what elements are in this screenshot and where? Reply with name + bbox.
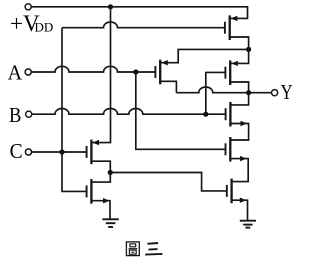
wire C vertical to Ninv gate	[62, 28, 87, 192]
nmos N3 (gate C-bar)	[227, 179, 246, 204]
node A junction	[133, 69, 138, 74]
label Y	[281, 80, 293, 104]
svg-text:C: C	[10, 139, 23, 163]
caption glyph 三	[145, 243, 162, 255]
+VDD terminal	[25, 4, 31, 10]
wire P2 source to node P	[160, 49, 248, 62]
pmos P1 (gate C, top right)	[225, 15, 237, 40]
input terminal A	[25, 69, 31, 75]
output terminal Y	[272, 90, 278, 96]
ground (right)	[240, 221, 256, 228]
wire A branch to N2 gate	[136, 72, 226, 149]
wire P1 drain to node P	[230, 37, 249, 49]
node B junction	[203, 112, 208, 117]
wire P3 drain to Y node	[230, 82, 248, 93]
node P junction dot	[246, 47, 251, 52]
label +VDD	[10, 11, 53, 36]
wire Cbar to N3 gate	[110, 173, 227, 191]
wire C to P1 gate with hop	[62, 22, 225, 28]
label A	[8, 60, 23, 84]
svg-text:A: A	[8, 60, 23, 84]
node Y junction dot	[246, 90, 251, 95]
nmos N2 (gate A)	[226, 137, 247, 162]
pmos P2 (gate A)	[155, 60, 167, 85]
wire P2 drain to Y line	[160, 81, 176, 92]
node VDD rail junction	[108, 4, 113, 9]
wire VDD drop to Pinv source	[91, 7, 110, 143]
svg-text:Y: Y	[281, 80, 293, 104]
input terminal B	[26, 111, 32, 117]
node C junction	[59, 149, 64, 154]
wire N1 source to N2 drain	[230, 124, 248, 141]
wire N2 source to N3 drain	[230, 159, 248, 182]
pmos P3 (gate B)	[225, 60, 237, 85]
wire C line to Pinv gate	[32, 151, 87, 153]
svg-text:B: B	[9, 103, 21, 127]
input terminal C	[25, 149, 31, 155]
wire Y line with hop	[176, 87, 271, 93]
ground (left)	[102, 219, 118, 227]
wire Pinv drain to node Cbar	[91, 161, 110, 172]
wire VDD rail to P1 source	[31, 7, 247, 19]
wire B line with hops to N1 gate	[32, 108, 226, 114]
nmos N1 (gate B)	[226, 102, 247, 127]
pmos Pinv (inverter, gate C)	[87, 140, 99, 165]
label B	[9, 103, 21, 127]
wire A line with hops to P2 gate	[31, 66, 155, 72]
node Cbar junction dot	[108, 170, 113, 175]
svg-text:DD: DD	[35, 20, 54, 35]
caption glyph 圖	[126, 242, 139, 256]
wire Ninv drain to node Cbar	[91, 173, 110, 183]
wire N1 drain to Y node	[230, 93, 248, 105]
wire node P to P3 source	[230, 49, 248, 63]
wire Ninv source to ground	[91, 201, 110, 220]
label C	[10, 139, 23, 163]
wire B branch to P3 gate	[206, 72, 226, 114]
wire N3 source to ground	[232, 200, 248, 221]
nmos Ninv (inverter, gate C)	[87, 179, 110, 204]
